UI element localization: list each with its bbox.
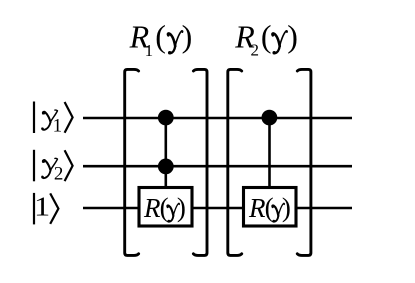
control dot on q1 (gate 1): [158, 110, 174, 126]
svg-text:): ): [287, 18, 298, 54]
gate box R(gamma) of group 1: [139, 188, 192, 227]
control line of gate 1: [165, 118, 168, 191]
ket label |y2>: [34, 150, 73, 185]
svg-text:R: R: [248, 193, 266, 223]
svg-text:): ): [177, 193, 186, 223]
svg-text:): ): [182, 18, 193, 54]
svg-text:): ): [282, 193, 291, 223]
right bracket of group 1: [193, 69, 207, 255]
control dot on q2 (gate 1): [158, 159, 174, 175]
svg-text:2: 2: [251, 41, 260, 60]
wire q3: [83, 207, 352, 210]
svg-text:1: 1: [53, 116, 63, 137]
label R1(gamma): [129, 18, 193, 60]
ket label |y1>: [34, 102, 73, 137]
svg-text:1: 1: [145, 41, 154, 60]
left bracket of group 2: [228, 69, 242, 255]
label R2(gamma): [234, 18, 298, 60]
svg-text:(: (: [261, 18, 272, 54]
wire q1: [83, 117, 352, 120]
control line of gate 2: [268, 118, 271, 191]
wire q2: [83, 165, 352, 168]
svg-text:R: R: [143, 193, 161, 223]
svg-text:2: 2: [54, 163, 64, 184]
ket label |1>: [34, 192, 58, 224]
control dot on q1 (gate 2): [262, 110, 278, 126]
right bracket of group 2: [297, 69, 311, 255]
svg-text:1: 1: [34, 192, 50, 222]
left bracket of group 1: [125, 69, 139, 255]
svg-text:(: (: [155, 18, 166, 54]
gate box R(gamma) of group 2: [244, 188, 297, 227]
